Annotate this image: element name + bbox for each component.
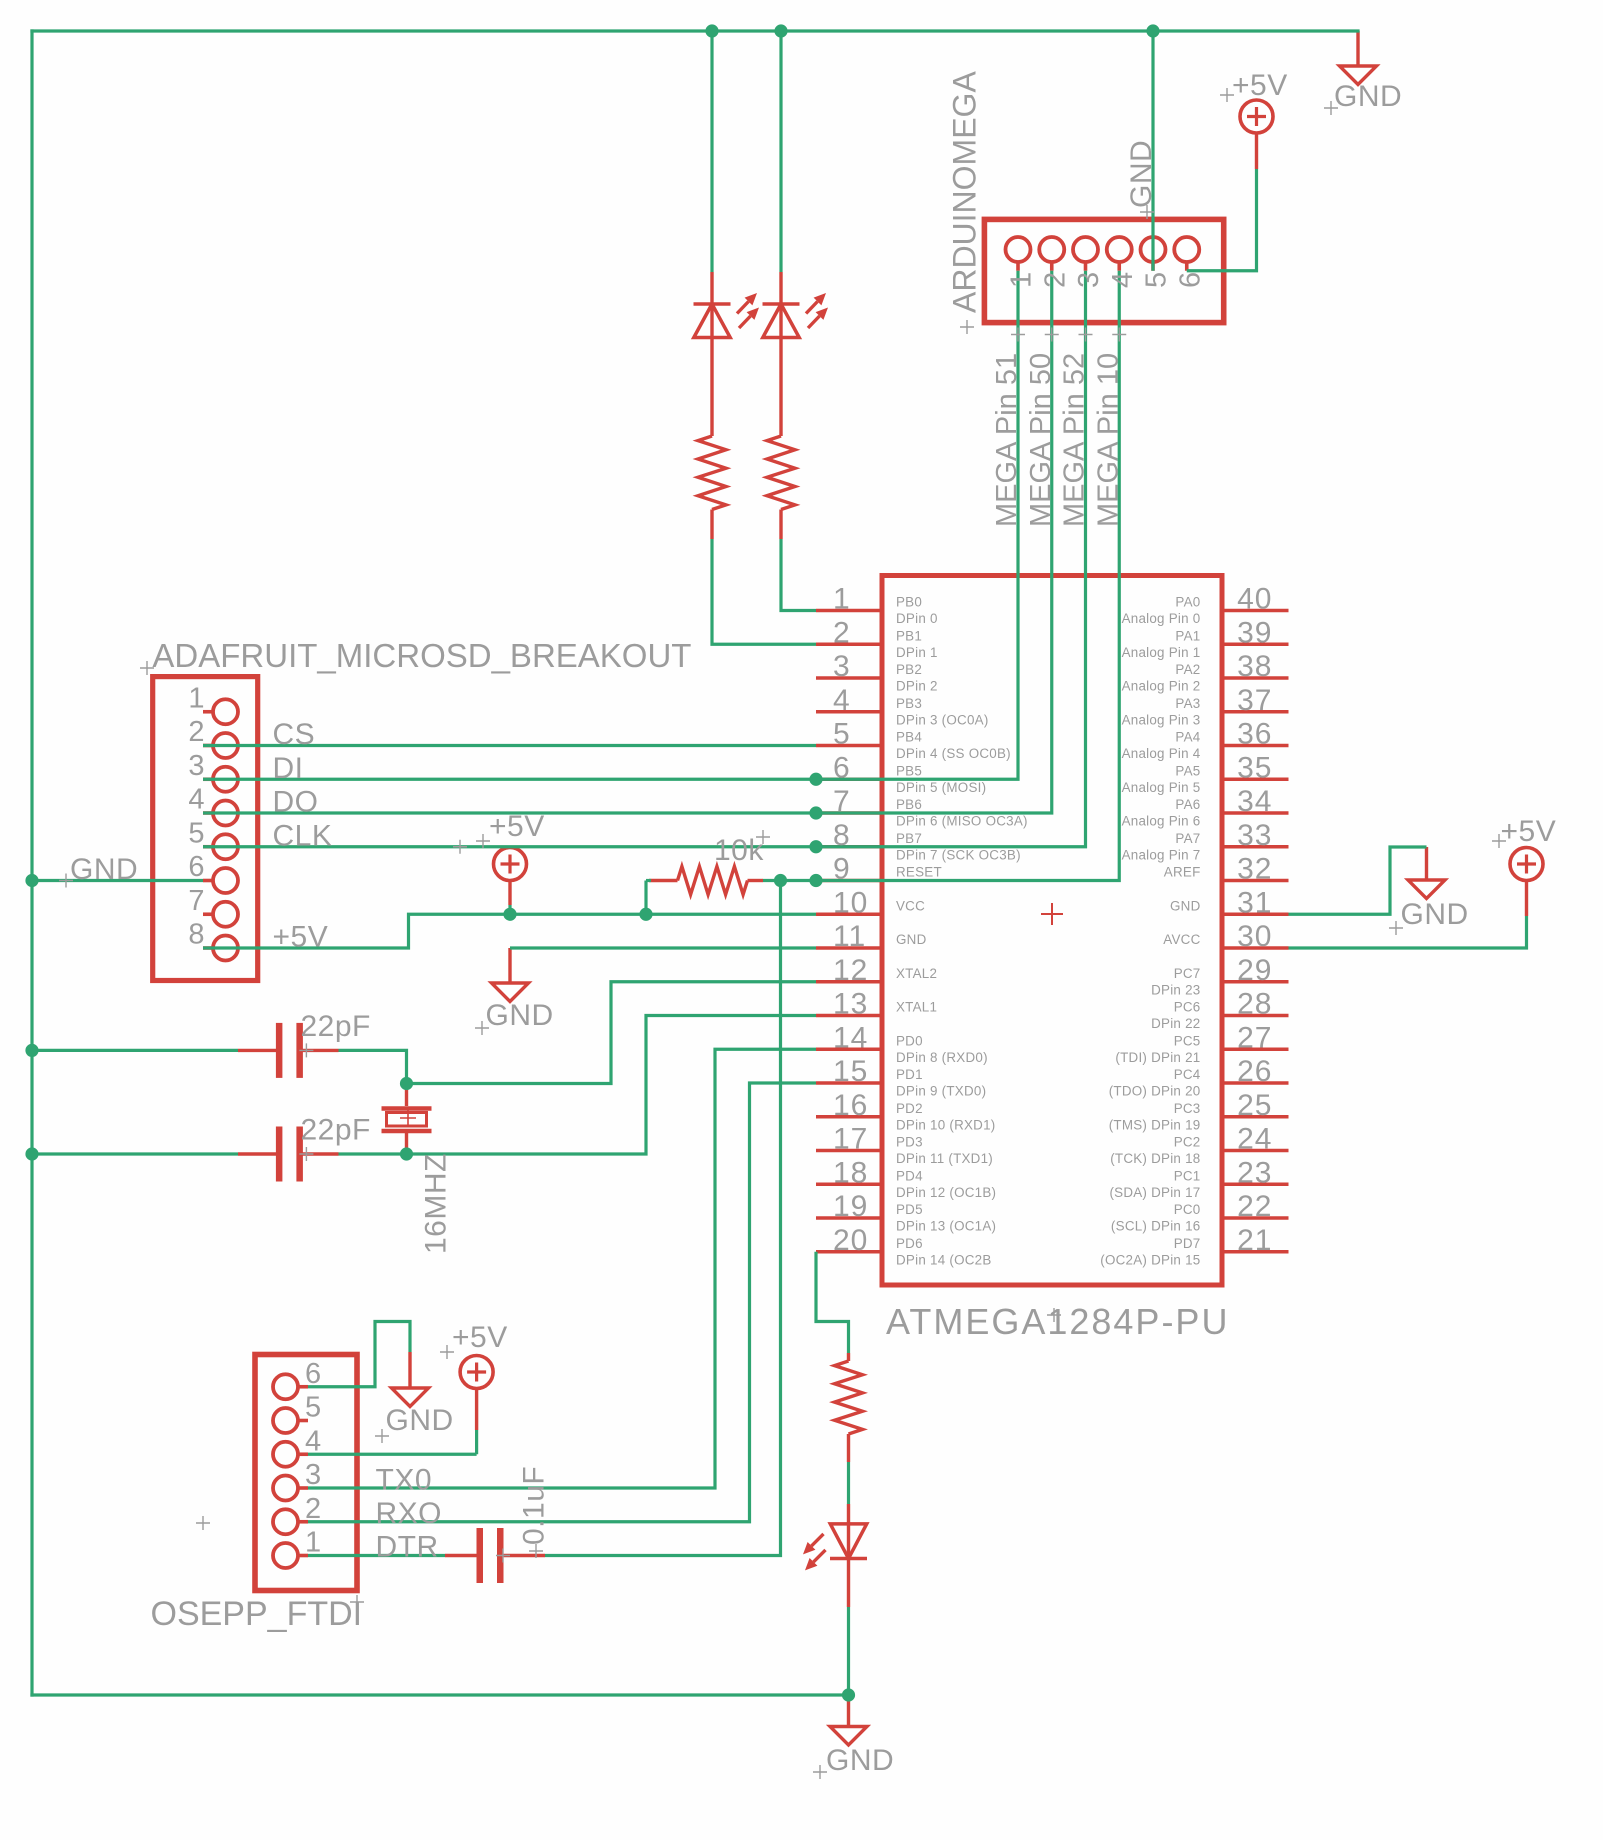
svg-text:DPin 11 (TXD1): DPin 11 (TXD1)	[896, 1151, 993, 1166]
svg-text:+5V: +5V	[452, 1321, 508, 1354]
svg-text:5: 5	[1141, 272, 1173, 288]
svg-text:DPin 1: DPin 1	[896, 645, 938, 660]
svg-text:15: 15	[833, 1055, 868, 1088]
svg-text:DPin 13 (OC1A): DPin 13 (OC1A)	[896, 1219, 996, 1234]
svg-text:4: 4	[833, 684, 851, 717]
svg-text:+5V: +5V	[1501, 815, 1557, 848]
svg-text:PB1: PB1	[896, 628, 922, 643]
svg-text:PB7: PB7	[896, 831, 922, 846]
svg-text:0.1uF: 0.1uF	[518, 1466, 551, 1545]
svg-text:PA5: PA5	[1175, 763, 1200, 778]
svg-text:22: 22	[1237, 1190, 1272, 1223]
svg-text:8: 8	[188, 919, 204, 951]
svg-text:(SCL) DPin 16: (SCL) DPin 16	[1111, 1219, 1201, 1234]
svg-text:3: 3	[188, 750, 204, 782]
svg-text:1: 1	[833, 583, 851, 616]
svg-text:PD2: PD2	[896, 1101, 923, 1116]
svg-text:PC6: PC6	[1174, 1000, 1201, 1015]
svg-text:11: 11	[833, 920, 866, 953]
svg-text:33: 33	[1237, 819, 1272, 852]
svg-text:12: 12	[833, 954, 868, 987]
svg-text:PA0: PA0	[1175, 595, 1200, 610]
svg-text:28: 28	[1237, 988, 1272, 1021]
svg-text:29: 29	[1237, 954, 1272, 987]
svg-text:4: 4	[1107, 272, 1139, 288]
svg-text:CLK: CLK	[273, 819, 333, 852]
svg-text:6: 6	[188, 851, 204, 883]
svg-text:DPin 4 (SS OC0B): DPin 4 (SS OC0B)	[896, 746, 1011, 761]
svg-text:XTAL1: XTAL1	[896, 1000, 937, 1015]
svg-text:Analog Pin 2: Analog Pin 2	[1122, 679, 1201, 694]
svg-text:6: 6	[1174, 272, 1206, 288]
svg-text:3: 3	[1073, 272, 1105, 288]
svg-text:1: 1	[188, 682, 204, 714]
svg-text:PC2: PC2	[1174, 1135, 1201, 1150]
svg-text:30: 30	[1237, 920, 1272, 953]
svg-text:Analog Pin 5: Analog Pin 5	[1122, 780, 1201, 795]
svg-text:(TDO) DPin 20: (TDO) DPin 20	[1109, 1084, 1201, 1099]
svg-text:GND: GND	[1170, 898, 1201, 913]
svg-text:PB5: PB5	[896, 763, 922, 778]
svg-text:(TDI) DPin 21: (TDI) DPin 21	[1115, 1050, 1200, 1065]
svg-text:39: 39	[1237, 616, 1272, 649]
svg-text:PA7: PA7	[1175, 831, 1200, 846]
svg-text:DPin 2: DPin 2	[896, 679, 938, 694]
svg-text:PB3: PB3	[896, 696, 922, 711]
svg-text:TX0: TX0	[376, 1464, 433, 1497]
svg-text:ATMEGA1284P-PU: ATMEGA1284P-PU	[886, 1301, 1229, 1342]
svg-text:PD7: PD7	[1174, 1236, 1201, 1251]
svg-text:17: 17	[833, 1123, 868, 1156]
svg-text:3: 3	[305, 1459, 321, 1491]
svg-text:2: 2	[833, 616, 851, 649]
svg-text:10: 10	[833, 886, 868, 919]
svg-text:DPin 23: DPin 23	[1151, 982, 1200, 997]
svg-text:5: 5	[305, 1392, 321, 1424]
svg-text:PC5: PC5	[1174, 1033, 1201, 1048]
svg-text:6: 6	[305, 1358, 321, 1390]
svg-text:9: 9	[833, 853, 851, 886]
svg-text:2: 2	[305, 1493, 321, 1525]
svg-text:27: 27	[1237, 1021, 1272, 1054]
svg-text:DPin 14 (OC2B: DPin 14 (OC2B	[896, 1252, 992, 1267]
svg-text:PC0: PC0	[1174, 1202, 1201, 1217]
svg-text:GND: GND	[486, 999, 554, 1032]
svg-text:PD6: PD6	[896, 1236, 923, 1251]
svg-text:PC1: PC1	[1174, 1168, 1201, 1183]
svg-text:37: 37	[1237, 684, 1272, 717]
svg-text:GND: GND	[896, 932, 927, 947]
svg-text:Analog Pin 4: Analog Pin 4	[1122, 746, 1201, 761]
svg-text:PA3: PA3	[1175, 696, 1200, 711]
svg-text:Analog Pin 6: Analog Pin 6	[1122, 814, 1201, 829]
svg-text:OSEPP_FTDI: OSEPP_FTDI	[151, 1595, 363, 1633]
svg-text:(OC2A) DPin 15: (OC2A) DPin 15	[1100, 1252, 1200, 1267]
svg-text:4: 4	[188, 784, 204, 816]
svg-text:AREF: AREF	[1164, 865, 1201, 880]
svg-text:PC3: PC3	[1174, 1101, 1201, 1116]
svg-text:5: 5	[188, 817, 204, 849]
svg-text:(TMS) DPin 19: (TMS) DPin 19	[1109, 1117, 1201, 1132]
svg-text:DPin 3 (OC0A): DPin 3 (OC0A)	[896, 712, 989, 727]
svg-text:1: 1	[1006, 272, 1038, 288]
svg-text:Analog Pin 0: Analog Pin 0	[1122, 611, 1201, 626]
svg-text:(SDA) DPin 17: (SDA) DPin 17	[1109, 1185, 1200, 1200]
svg-text:DO: DO	[273, 786, 319, 819]
svg-text:AVCC: AVCC	[1163, 932, 1200, 947]
svg-text:22pF: 22pF	[301, 1010, 371, 1043]
svg-text:MEGA Pin 51: MEGA Pin 51	[991, 353, 1023, 527]
svg-text:(TCK) DPin 18: (TCK) DPin 18	[1110, 1151, 1200, 1166]
svg-text:1: 1	[305, 1527, 321, 1559]
svg-text:GND: GND	[826, 1744, 894, 1777]
svg-text:MEGA Pin 10: MEGA Pin 10	[1092, 353, 1124, 527]
svg-text:PA1: PA1	[1175, 628, 1200, 643]
svg-text:VCC: VCC	[896, 898, 925, 913]
svg-text:24: 24	[1237, 1123, 1272, 1156]
svg-text:DPin 22: DPin 22	[1151, 1016, 1200, 1031]
svg-text:DPin 7 (SCK OC3B): DPin 7 (SCK OC3B)	[896, 847, 1021, 862]
svg-text:DI: DI	[273, 752, 304, 785]
svg-text:7: 7	[188, 885, 204, 917]
svg-text:21: 21	[1237, 1224, 1272, 1257]
svg-text:RXO: RXO	[376, 1497, 443, 1530]
svg-text:Analog Pin 3: Analog Pin 3	[1122, 712, 1201, 727]
svg-text:PD5: PD5	[896, 1202, 923, 1217]
svg-text:38: 38	[1237, 650, 1272, 683]
svg-text:+5V: +5V	[1232, 69, 1288, 102]
svg-text:DPin 8 (RXD0): DPin 8 (RXD0)	[896, 1050, 988, 1065]
svg-text:GND: GND	[1401, 898, 1469, 931]
svg-text:20: 20	[833, 1224, 868, 1257]
svg-text:PB2: PB2	[896, 662, 922, 677]
svg-text:19: 19	[833, 1190, 868, 1223]
svg-text:PB4: PB4	[896, 730, 922, 745]
svg-text:PA6: PA6	[1175, 797, 1200, 812]
svg-text:8: 8	[833, 819, 851, 852]
svg-text:DPin 12 (OC1B): DPin 12 (OC1B)	[896, 1185, 996, 1200]
svg-text:DPin 6 (MISO OC3A): DPin 6 (MISO OC3A)	[896, 814, 1028, 829]
svg-text:18: 18	[833, 1156, 868, 1189]
svg-text:5: 5	[833, 718, 851, 751]
svg-text:+5V: +5V	[273, 921, 329, 954]
svg-text:ADAFRUIT_MICROSD_BREAKOUT: ADAFRUIT_MICROSD_BREAKOUT	[152, 637, 691, 674]
svg-text:PC4: PC4	[1174, 1067, 1201, 1082]
svg-text:PC7: PC7	[1174, 966, 1201, 981]
svg-text:40: 40	[1237, 583, 1272, 616]
svg-text:GND: GND	[1334, 80, 1402, 113]
svg-text:26: 26	[1237, 1055, 1272, 1088]
svg-text:DPin 0: DPin 0	[896, 611, 938, 626]
svg-text:PD1: PD1	[896, 1067, 923, 1082]
svg-text:31: 31	[1237, 886, 1272, 919]
svg-text:25: 25	[1237, 1089, 1272, 1122]
svg-text:CS: CS	[273, 718, 316, 751]
svg-text:16MHZ: 16MHZ	[420, 1153, 453, 1254]
svg-text:32: 32	[1237, 853, 1272, 886]
svg-text:13: 13	[833, 988, 868, 1021]
svg-text:XTAL2: XTAL2	[896, 966, 937, 981]
svg-text:35: 35	[1237, 751, 1272, 784]
svg-text:36: 36	[1237, 718, 1272, 751]
svg-text:PB6: PB6	[896, 797, 922, 812]
svg-text:PB0: PB0	[896, 595, 922, 610]
svg-text:DPin 9 (TXD0): DPin 9 (TXD0)	[896, 1084, 986, 1099]
svg-text:PD0: PD0	[896, 1033, 923, 1048]
svg-text:Analog Pin 1: Analog Pin 1	[1122, 645, 1201, 660]
svg-text:14: 14	[833, 1021, 868, 1054]
svg-text:DPin 5 (MOSI): DPin 5 (MOSI)	[896, 780, 986, 795]
svg-text:Analog Pin 7: Analog Pin 7	[1122, 847, 1201, 862]
svg-text:2: 2	[1039, 272, 1071, 288]
svg-text:MEGA Pin 50: MEGA Pin 50	[1025, 353, 1057, 527]
svg-text:GND: GND	[1125, 140, 1158, 208]
svg-text:22pF: 22pF	[301, 1114, 371, 1147]
svg-text:7: 7	[833, 785, 851, 818]
svg-text:PD4: PD4	[896, 1168, 923, 1183]
svg-text:DPin 10 (RXD1): DPin 10 (RXD1)	[896, 1117, 996, 1132]
svg-text:GND: GND	[70, 853, 138, 886]
svg-text:4: 4	[305, 1425, 321, 1457]
svg-text:10k: 10k	[714, 834, 764, 867]
svg-text:3: 3	[833, 650, 851, 683]
svg-text:23: 23	[1237, 1156, 1272, 1189]
svg-text:2: 2	[188, 716, 204, 748]
svg-text:DTR: DTR	[376, 1531, 439, 1564]
svg-text:RESET: RESET	[896, 865, 942, 880]
svg-text:6: 6	[833, 751, 851, 784]
svg-text:PA4: PA4	[1175, 730, 1200, 745]
svg-text:PD3: PD3	[896, 1135, 923, 1150]
svg-text:16: 16	[833, 1089, 868, 1122]
svg-text:PA2: PA2	[1175, 662, 1200, 677]
svg-text:+5V: +5V	[489, 810, 545, 843]
svg-text:GND: GND	[386, 1404, 454, 1437]
svg-text:ARDUINOMEGA: ARDUINOMEGA	[947, 71, 983, 313]
svg-text:34: 34	[1237, 785, 1272, 818]
svg-text:MEGA Pin 52: MEGA Pin 52	[1059, 353, 1091, 527]
